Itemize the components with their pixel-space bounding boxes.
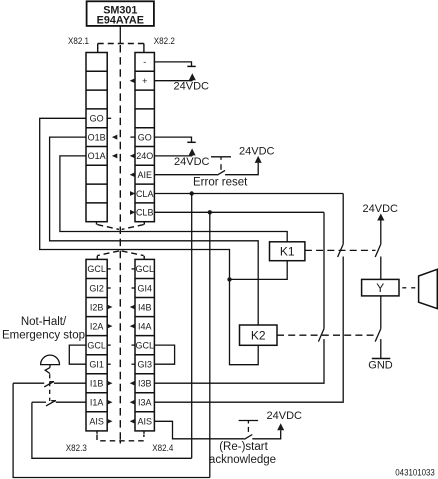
signal arrow I4B xyxy=(130,305,135,310)
wire CLB down-left to I1B loop xyxy=(209,212,211,477)
svg-text:24O: 24O xyxy=(136,151,153,161)
terminal block X82.2 xyxy=(135,53,154,222)
0V bar symbol (GO) xyxy=(187,141,195,143)
svg-text:K1: K1 xyxy=(280,245,295,259)
svg-text:GCL: GCL xyxy=(135,340,154,350)
loop GCL-GI3 (X82.4) xyxy=(154,345,174,364)
wire Y to K2 contact xyxy=(380,296,382,329)
relay contact K1 (feedback line) xyxy=(338,244,344,257)
svg-text:I4B: I4B xyxy=(138,302,152,312)
loop GCL-GI1 (X82.3) xyxy=(69,345,86,364)
wire contact to Y xyxy=(380,257,382,280)
actuator dashed link K2 xyxy=(277,334,376,336)
svg-text:GO: GO xyxy=(138,132,152,142)
wire CLA down-left to I1A loop xyxy=(191,194,193,459)
svg-text:O1A: O1A xyxy=(88,151,106,161)
wire error reset switch to 24VDC xyxy=(225,163,258,175)
junction node GO rail xyxy=(227,277,231,281)
label Error reset xyxy=(193,177,248,189)
24VDC supply arrow (error reset) xyxy=(239,145,275,163)
signal arrow I2A xyxy=(107,324,112,329)
signal arrow I2B xyxy=(107,305,112,310)
relay contact K1 (output branch) xyxy=(375,244,381,257)
wire CLA horizontal xyxy=(154,193,343,195)
24VDC supply arrow (24O) xyxy=(174,148,210,167)
svg-text:Error reset: Error reset xyxy=(193,177,248,189)
svg-text:I3B: I3B xyxy=(138,379,152,389)
signal arrow AIS left xyxy=(107,419,112,424)
svg-text:24VDC: 24VDC xyxy=(239,145,275,157)
signal arrow plus xyxy=(130,78,135,83)
document number xyxy=(395,467,435,477)
svg-text:I1B: I1B xyxy=(90,379,104,389)
signal arrow I1A xyxy=(107,400,112,405)
signal arrow I3B xyxy=(130,381,135,386)
0V bar symbol (minus) xyxy=(187,65,195,67)
svg-text:X82.1: X82.1 xyxy=(68,36,89,46)
svg-text:GND: GND xyxy=(368,360,393,372)
module boundary: between blocks bowtie xyxy=(97,222,145,260)
svg-text:GCL: GCL xyxy=(87,264,106,274)
svg-text:GCL: GCL xyxy=(135,264,154,274)
wire module box to boundary xyxy=(119,26,121,44)
svg-text:AIS: AIS xyxy=(89,417,104,427)
wire O1A (X82.1) to K1 coil top xyxy=(60,156,287,242)
wire O1B (X82.1) to K2 coil top xyxy=(50,137,259,325)
module boundary: top dashed edge xyxy=(98,44,144,53)
label X82.2 xyxy=(154,36,175,46)
svg-text:X82.4: X82.4 xyxy=(152,443,173,453)
24VDC supply arrow (plus) xyxy=(174,73,210,92)
svg-text:24VDC: 24VDC xyxy=(174,81,210,93)
svg-text:GI3: GI3 xyxy=(137,360,152,370)
wire K2 contact to I3B xyxy=(154,339,324,383)
signal arrow I3A xyxy=(130,400,135,405)
label X82.3 xyxy=(66,443,87,453)
pin stub GI1 X82.3 xyxy=(107,363,111,365)
relay contact K2 (feedback line) xyxy=(318,329,324,342)
terminal block X82.3 xyxy=(86,259,107,431)
svg-text:24VDC: 24VDC xyxy=(174,156,210,168)
svg-text:+: + xyxy=(142,76,147,86)
terminal block X82.1 xyxy=(86,53,107,222)
signal arrow I1B xyxy=(107,381,112,386)
wire AIS (X82.4) to restart switch xyxy=(154,421,244,439)
wire terminal 24O to 24VDC xyxy=(154,155,192,157)
wire K1 coil bottom to GO rail xyxy=(230,261,288,280)
svg-text:E94AYAE: E94AYAE xyxy=(97,15,144,27)
relay coil K1 xyxy=(270,242,305,261)
svg-text:GO: GO xyxy=(90,114,104,124)
svg-text:CLA: CLA xyxy=(136,189,154,199)
wire CLB horizontal xyxy=(154,211,324,213)
wire CLB right branch down to K2 contact xyxy=(323,212,325,328)
pin stub GI3 X82.4 xyxy=(132,363,136,365)
svg-text:24VDC: 24VDC xyxy=(363,203,399,215)
svg-text:I2B: I2B xyxy=(90,302,104,312)
dashed link Y to horn xyxy=(402,287,415,289)
svg-text:CLB: CLB xyxy=(136,208,154,218)
wire terminal minus to 0V xyxy=(154,62,191,66)
pin stub GCL1 X82.4 xyxy=(132,268,136,270)
svg-text:K2: K2 xyxy=(251,329,266,343)
signal arrow O1A xyxy=(112,153,117,158)
pushbutton Error reset xyxy=(211,157,231,175)
module boundary: bottom dashed edge xyxy=(97,431,144,444)
pin stub GI4 X82.4 xyxy=(132,287,136,289)
wire AIE to error reset switch xyxy=(154,174,217,176)
actuator Y xyxy=(362,279,399,296)
relay contact K2 (output branch) xyxy=(375,329,381,342)
24VDC supply arrow (output branch) xyxy=(363,203,399,244)
contact I1A (emergency stop) xyxy=(32,400,86,406)
module boundary: center dashed line xyxy=(119,45,121,441)
junction node CLA xyxy=(190,191,194,195)
wire K1 contact to I3A xyxy=(154,257,343,403)
svg-text:GI2: GI2 xyxy=(89,283,104,293)
label (Re-)start acknowledge xyxy=(209,441,276,466)
module SM301 E94AYAE xyxy=(87,1,154,26)
relay coil K2 xyxy=(240,325,278,345)
label X82.1 xyxy=(68,36,89,46)
emergency stop button xyxy=(41,355,60,401)
svg-text:GI1: GI1 xyxy=(89,360,104,370)
wire terminal GO (X82.2) to 0V xyxy=(154,137,191,142)
signal arrow AIS right xyxy=(130,419,135,424)
signal arrow AIE xyxy=(130,172,135,177)
junction node CLB xyxy=(208,210,212,214)
svg-text:O1B: O1B xyxy=(88,132,106,142)
wire I1A loop to CLA xyxy=(32,402,192,458)
signal arrow CLB xyxy=(130,210,135,215)
svg-text:X82.3: X82.3 xyxy=(66,443,87,453)
svg-text:24VDC: 24VDC xyxy=(267,410,303,422)
svg-text:-: - xyxy=(143,57,146,67)
pin stub GI2 X82.3 xyxy=(107,287,111,289)
svg-text:I4A: I4A xyxy=(138,321,152,331)
pushbutton (Re-)start xyxy=(239,421,259,440)
pin stub GO X82.2 left xyxy=(130,136,135,138)
signal arrow I4A xyxy=(130,324,135,329)
signal arrow 24O xyxy=(130,154,135,159)
signal arrow CLA xyxy=(130,191,135,196)
wire CLA right branch down to K1 contact xyxy=(342,194,344,245)
terminal block X82.4 xyxy=(135,259,154,431)
svg-text:(Re-)start: (Re-)start xyxy=(219,441,268,453)
svg-text:X82.2: X82.2 xyxy=(154,36,175,46)
svg-text:GCL: GCL xyxy=(87,340,106,350)
svg-text:GI4: GI4 xyxy=(137,283,152,293)
svg-text:AIS: AIS xyxy=(137,417,152,427)
wire contact to GND xyxy=(380,339,382,358)
svg-text:Not-Halt/: Not-Halt/ xyxy=(21,316,67,328)
signal arrow O1B xyxy=(112,135,117,140)
svg-text:I2A: I2A xyxy=(90,321,104,331)
label X82.4 xyxy=(152,443,173,453)
24VDC supply arrow (restart) xyxy=(267,410,303,430)
pin stub GCL5 X82.3 xyxy=(107,344,111,346)
contact I1B (emergency stop) xyxy=(13,381,86,387)
horn / brake symbol xyxy=(419,269,438,308)
actuator dashed link K1 xyxy=(305,249,376,251)
wire terminal plus to 24VDC xyxy=(154,80,192,82)
svg-text:acknowledge: acknowledge xyxy=(209,454,276,466)
svg-text:I1A: I1A xyxy=(90,398,104,408)
svg-text:I3A: I3A xyxy=(138,398,152,408)
pin stub GCL1 X82.3 xyxy=(107,268,111,270)
wire GO (X82.1) to K1/K2 common rail xyxy=(40,118,259,364)
wire I1B loop to CLB xyxy=(13,383,210,477)
svg-text:Y: Y xyxy=(376,281,384,295)
svg-text:Emergency stop: Emergency stop xyxy=(2,329,85,341)
svg-text:043101033: 043101033 xyxy=(395,467,435,477)
label Not-Halt / Emergency stop xyxy=(2,316,85,341)
wire restart switch to 24VDC xyxy=(252,430,280,439)
ground GND xyxy=(368,359,393,372)
pin stub GCL5 X82.4 xyxy=(132,344,136,346)
svg-text:AIE: AIE xyxy=(137,170,152,180)
pin stub GO X82.1 right xyxy=(107,117,111,119)
